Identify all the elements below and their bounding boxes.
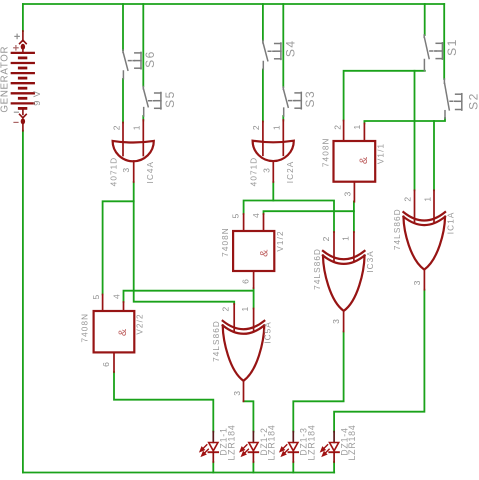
- wire S5 to IC4A pin1: [142, 116, 144, 121]
- svg-text:7408N: 7408N: [321, 137, 330, 167]
- switch S1: [424, 35, 442, 71]
- wire S1 branch to IC1A pin2: [414, 71, 416, 191]
- wire top rail VCC: [23, 3, 444, 5]
- wire battery minus left rail: [22, 131, 24, 473]
- wire rail to S2: [443, 4, 445, 79]
- svg-text:74LS86D: 74LS86D: [212, 320, 221, 362]
- switch S6: [123, 50, 141, 79]
- wire rail to S3: [282, 4, 284, 87]
- wire S4 to IC2A pin2: [262, 70, 264, 122]
- svg-text:7408N: 7408N: [221, 227, 230, 257]
- wire rail to S5: [142, 4, 144, 87]
- svg-text:LZR184: LZR184: [226, 424, 236, 460]
- svg-text:S5: S5: [163, 90, 177, 108]
- or-gate IC2A 4071D: [253, 120, 294, 182]
- battery G1 GENERATOR 9V: [12, 31, 34, 131]
- switch S2: [444, 79, 461, 118]
- LED DZ1-2: [240, 432, 258, 462]
- battery plus mark lower: [14, 46, 18, 50]
- wire V1/1 out to IC3A pin1: [353, 202, 355, 233]
- svg-text:4: 4: [251, 213, 261, 218]
- wire IC5A out to LED DZ1-2: [244, 401, 254, 431]
- svg-text:2: 2: [333, 125, 343, 130]
- svg-text:6: 6: [101, 362, 111, 367]
- xor-gate IC5A 74LS86D: [223, 304, 265, 401]
- wire LED DZ1-3 to ground rail: [292, 462, 294, 473]
- svg-text:9V: 9V: [32, 87, 43, 105]
- svg-text:IC3A: IC3A: [366, 250, 375, 273]
- and-gate V1/2 7408N: [233, 214, 274, 288]
- svg-text:1: 1: [352, 125, 362, 130]
- wire LED DZ1-4 to ground rail: [333, 462, 335, 473]
- svg-text:LZR184: LZR184: [266, 424, 276, 460]
- wire S3 to IC2A pin1: [282, 116, 284, 121]
- svg-text:2: 2: [220, 307, 230, 312]
- LED DZ1-4: [321, 432, 339, 462]
- wire rail to S1: [424, 4, 426, 35]
- svg-text:74LS86D: 74LS86D: [393, 208, 402, 250]
- wire rail to S6: [122, 4, 124, 50]
- svg-text:2: 2: [111, 125, 121, 130]
- wire S1 out to V1/1 pin2: [344, 71, 425, 121]
- svg-text:4071D: 4071D: [250, 157, 259, 187]
- svg-text:2: 2: [402, 197, 412, 202]
- svg-text:IC2A: IC2A: [286, 161, 295, 184]
- wire IC2A out branch to IC3A pin2: [273, 201, 334, 233]
- wire LED DZ1-1 to ground rail: [212, 462, 214, 473]
- switch S3: [283, 87, 301, 116]
- svg-text:3: 3: [262, 168, 272, 173]
- switch S4: [263, 41, 281, 70]
- LED DZ1-3: [280, 432, 298, 462]
- battery plus mark upper: [15, 34, 19, 38]
- wire IC1A out to LED DZ1-4: [334, 290, 424, 432]
- svg-text:1: 1: [272, 125, 282, 130]
- wire V2/2 out to LED DZ1-1: [114, 372, 213, 432]
- svg-text:3: 3: [342, 192, 352, 197]
- wire IC4A out branch to V2/2 pin5: [103, 201, 134, 294]
- svg-text:IC1A: IC1A: [447, 212, 456, 235]
- svg-text:LZR184: LZR184: [306, 424, 316, 460]
- wire IC2A out to V1/2 pin5: [244, 182, 274, 214]
- wire IC3A out to LED DZ1-3: [293, 332, 343, 432]
- svg-text:1: 1: [240, 307, 250, 312]
- xor-gate IC1A 74LS86D: [403, 190, 445, 289]
- svg-text:IC4A: IC4A: [146, 161, 155, 184]
- svg-text:GENERATOR: GENERATOR: [0, 46, 11, 113]
- svg-text:74LS86D: 74LS86D: [313, 248, 322, 290]
- svg-text:5: 5: [91, 295, 101, 300]
- svg-text:1: 1: [340, 236, 350, 241]
- svg-text:S2: S2: [467, 92, 479, 110]
- svg-text:4071D: 4071D: [110, 157, 119, 187]
- wire V1/2 out to IC5A pin1: [253, 288, 255, 308]
- wire bottom ground rail: [23, 472, 334, 474]
- or-gate IC4A 4071D: [113, 120, 154, 182]
- svg-text:LZR184: LZR184: [347, 424, 357, 460]
- svg-text:IC5A: IC5A: [264, 321, 273, 344]
- svg-text:S1: S1: [445, 38, 459, 56]
- svg-text:S4: S4: [283, 39, 297, 57]
- xor-gate IC3A 74LS86D: [323, 232, 365, 332]
- svg-text:3: 3: [412, 280, 422, 285]
- switch S5: [143, 87, 161, 117]
- battery minus mark upper: [14, 111, 18, 113]
- wire IC4A out to IC5A pin2: [134, 182, 235, 304]
- svg-text:V1/2: V1/2: [276, 230, 285, 251]
- svg-text:V1/1: V1/1: [376, 143, 385, 164]
- wire S2 out to V1/1 pin1: [364, 118, 445, 123]
- svg-text:6: 6: [241, 279, 251, 284]
- wire V1/2 out branch to V2/2 pin4: [124, 291, 254, 302]
- svg-text:3: 3: [331, 319, 341, 324]
- svg-text:2: 2: [251, 125, 261, 130]
- svg-text:&: &: [117, 328, 129, 336]
- svg-text:3: 3: [232, 391, 242, 396]
- LED DZ1-1: [200, 432, 218, 462]
- wire S6 to IC4A pin2: [122, 79, 124, 123]
- wire LED DZ1-2 to ground rail: [252, 462, 254, 473]
- svg-text:3: 3: [121, 168, 131, 173]
- and-gate V1/1 7408N: [334, 121, 376, 202]
- svg-text:S6: S6: [143, 50, 157, 68]
- svg-text:V2/2: V2/2: [136, 313, 145, 334]
- svg-text:1: 1: [132, 125, 142, 130]
- and-gate V2/2 7408N: [94, 295, 135, 373]
- svg-text:&: &: [358, 156, 370, 164]
- wire V1/1 out branch to V1/2 pin4: [264, 211, 354, 214]
- svg-text:4: 4: [112, 294, 122, 299]
- svg-text:5: 5: [231, 214, 241, 219]
- svg-text:7408N: 7408N: [80, 313, 89, 343]
- svg-text:1: 1: [422, 197, 432, 202]
- wire rail to S4: [262, 4, 264, 41]
- svg-text:S3: S3: [303, 90, 317, 108]
- svg-text:&: &: [258, 249, 270, 257]
- wire S2 branch to IC1A pin1: [433, 121, 435, 190]
- battery minus mark lower: [14, 121, 18, 123]
- wire battery plus to rail: [22, 4, 24, 31]
- svg-text:2: 2: [321, 236, 331, 241]
